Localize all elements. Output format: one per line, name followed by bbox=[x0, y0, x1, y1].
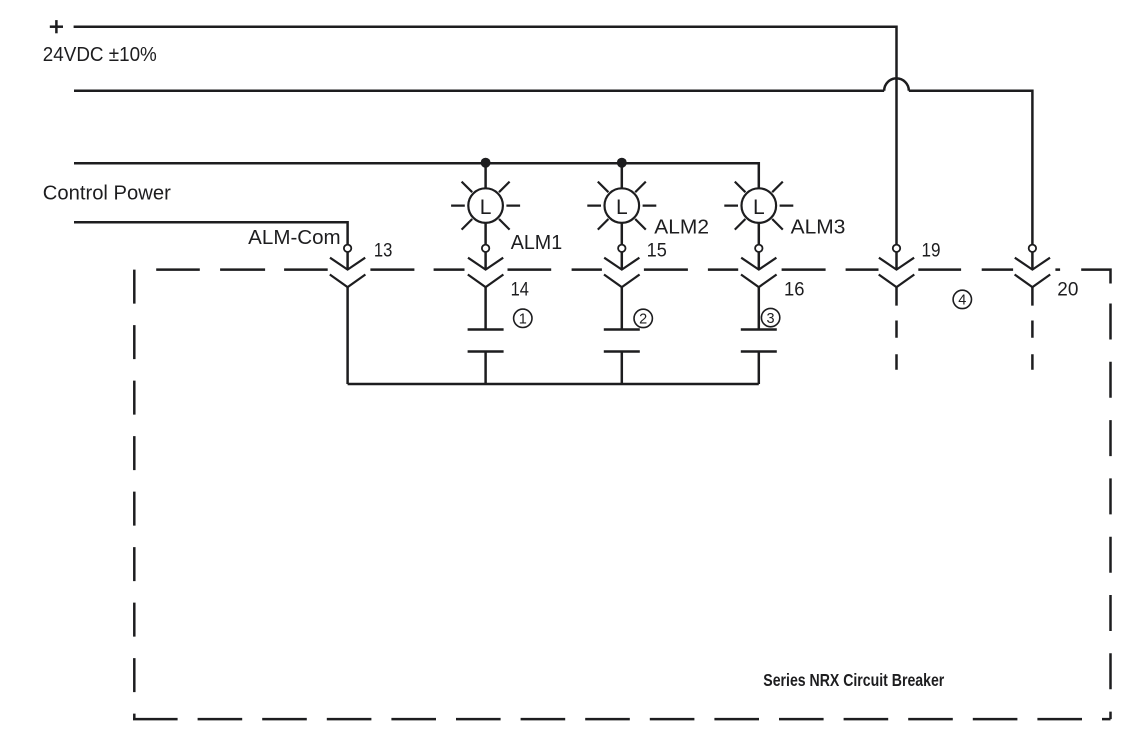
svg-text:4: 4 bbox=[958, 293, 966, 309]
junction node at lamp ALM1 on W3 bbox=[481, 158, 491, 168]
svg-text:L: L bbox=[616, 196, 628, 219]
svg-text:16: 16 bbox=[784, 278, 805, 300]
dashed enclosure left edge bbox=[133, 270, 136, 719]
dashed enclosure bottom edge bbox=[133, 718, 1111, 721]
wire from W3 down to lamp ALM2 bbox=[621, 163, 624, 189]
svg-text:20: 20 bbox=[1057, 278, 1078, 300]
svg-text:L: L bbox=[480, 196, 492, 219]
wire hop on W2 over W1 vertical bbox=[884, 78, 909, 90]
wire stub below terminal 19 bbox=[895, 287, 898, 370]
note circle 4 bbox=[953, 290, 971, 308]
wire W2 right segment with corner down to terminal 20 bbox=[909, 91, 1033, 245]
contact 3 (alarm contact) bbox=[741, 287, 777, 384]
lamp ALM1 bbox=[451, 182, 520, 230]
wire lamp ALM2 to terminal 15 bbox=[621, 223, 624, 245]
wire terminal 13 down to common bus bbox=[346, 287, 349, 384]
wire from W3 down to lamp ALM1 bbox=[484, 163, 487, 189]
lamp ALM3 bbox=[724, 182, 793, 230]
wire W4 control power to ALM-Com bbox=[74, 222, 348, 244]
wire common bus bbox=[348, 383, 759, 386]
svg-text:ALM1: ALM1 bbox=[511, 232, 563, 254]
svg-text:L: L bbox=[753, 196, 765, 219]
contact 1 (alarm contact) bbox=[468, 287, 504, 384]
junction node at lamp ALM2 on W3 bbox=[617, 158, 627, 168]
terminal 14 connector bbox=[468, 245, 504, 288]
+ polarity mark bbox=[50, 20, 63, 33]
terminal 13 connector ALM-Com bbox=[330, 245, 366, 288]
svg-text:1: 1 bbox=[519, 312, 527, 328]
svg-text:24VDC ±10%: 24VDC ±10% bbox=[43, 43, 157, 66]
svg-text:15: 15 bbox=[647, 240, 667, 262]
dashed enclosure top-right corner bbox=[1081, 270, 1110, 284]
wire lamp ALM3 to terminal 16 bbox=[758, 223, 761, 245]
wire lamp ALM1 to terminal 14 bbox=[484, 223, 487, 245]
svg-text:2: 2 bbox=[639, 312, 647, 328]
note circle 3 bbox=[761, 308, 779, 326]
terminal 20 connector bbox=[1015, 245, 1051, 288]
dashed enclosure top edge bbox=[156, 268, 1060, 271]
contact 2 (alarm contact) bbox=[604, 287, 640, 384]
terminal 16 connector bbox=[741, 245, 777, 288]
note circle 2 bbox=[634, 309, 652, 327]
note circle 1 bbox=[514, 309, 532, 327]
lamp ALM2 bbox=[587, 182, 656, 230]
terminal 19 connector bbox=[879, 245, 915, 288]
svg-text:ALM-Com: ALM-Com bbox=[248, 226, 341, 249]
svg-text:Series NRX Circuit Breaker: Series NRX Circuit Breaker bbox=[763, 670, 944, 690]
dashed enclosure right edge bbox=[1109, 304, 1112, 720]
svg-text:3: 3 bbox=[767, 311, 775, 327]
svg-text:13: 13 bbox=[374, 240, 393, 262]
svg-text:19: 19 bbox=[922, 240, 941, 262]
wire W2 second rail left segment bbox=[74, 89, 884, 92]
svg-text:Control Power: Control Power bbox=[43, 182, 171, 205]
svg-text:ALM2: ALM2 bbox=[654, 217, 709, 239]
wire W3 lamp supply rail bbox=[74, 163, 759, 188]
svg-text:ALM3: ALM3 bbox=[791, 217, 846, 239]
wire stub below terminal 20 bbox=[1031, 287, 1034, 370]
terminal 15 connector bbox=[604, 245, 640, 288]
wire W1 +24VDC rail (top) with corner down to terminal 19 bbox=[74, 27, 897, 245]
svg-text:14: 14 bbox=[511, 278, 529, 300]
